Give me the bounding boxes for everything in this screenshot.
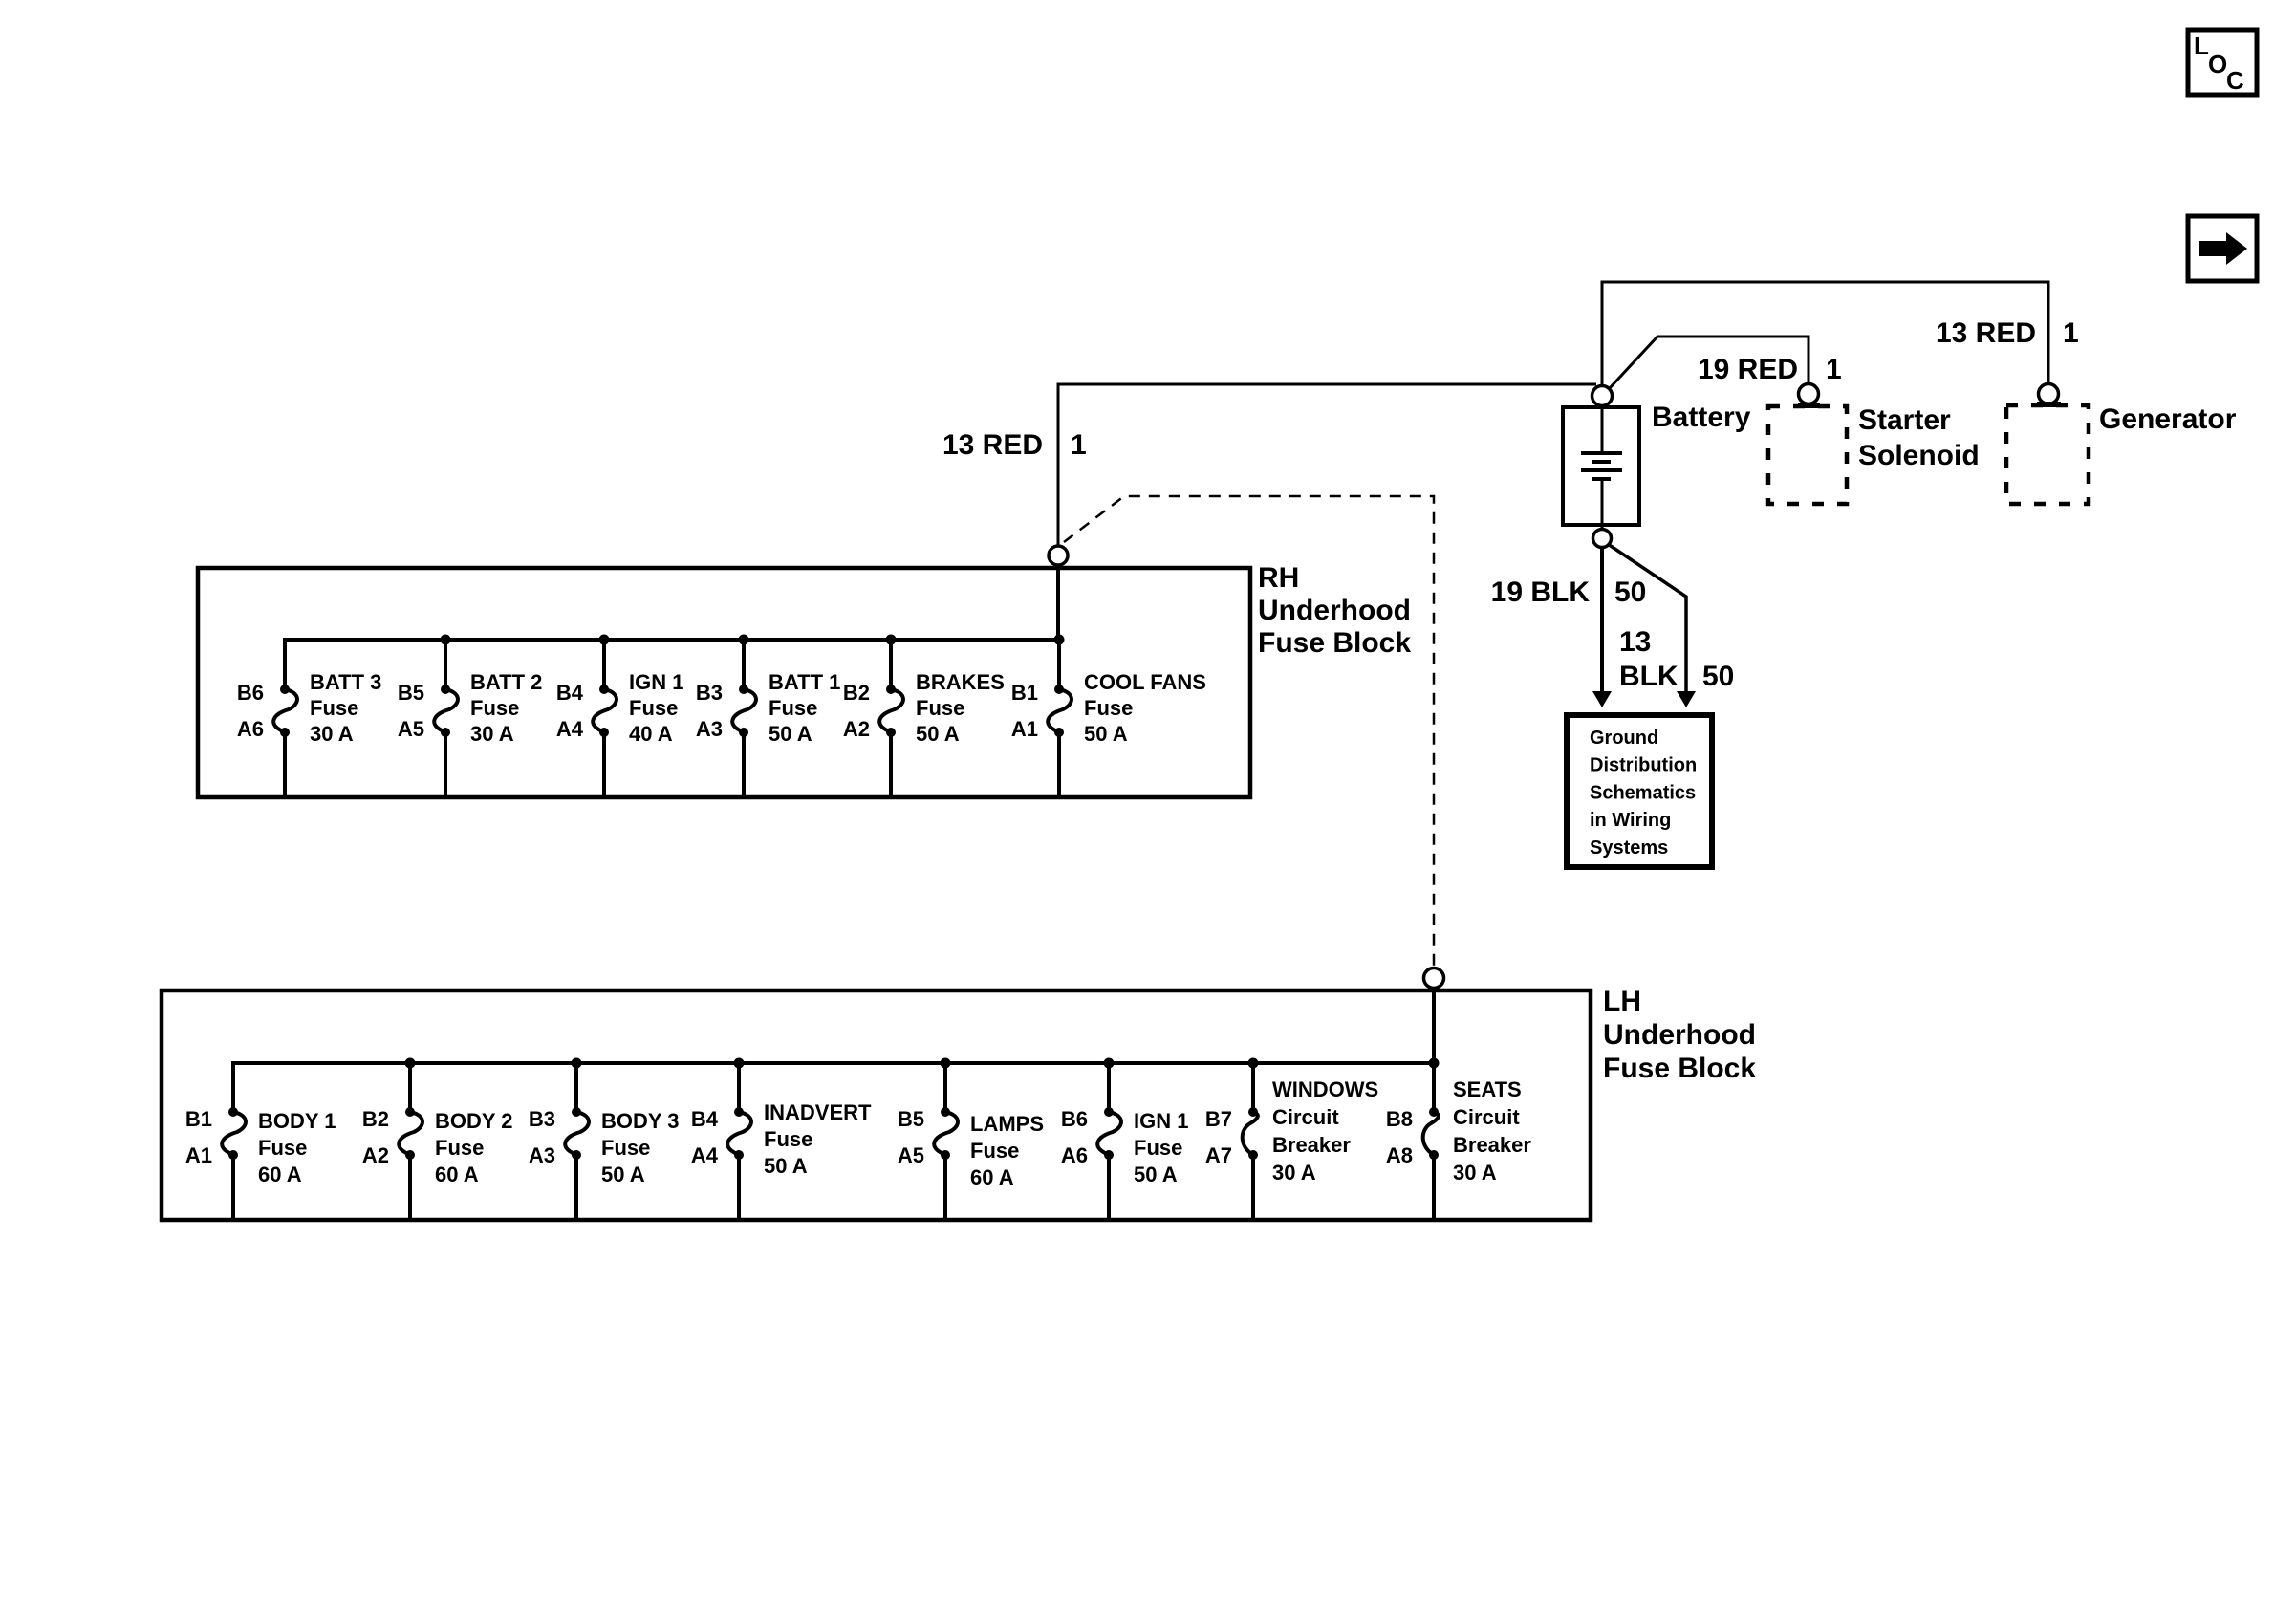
svg-text:30 A: 30 A bbox=[1272, 1161, 1316, 1185]
junction / wire for RH fuse IGN 1 bbox=[599, 635, 610, 798]
fuse BODY 2 60 A (LH B2/A2) bbox=[399, 1107, 422, 1160]
fuse INADVERT 50 A (LH B4/A4) bbox=[727, 1107, 751, 1160]
LOC reference box bbox=[2188, 30, 2257, 95]
svg-text:50: 50 bbox=[1614, 577, 1646, 608]
svg-text:Fuse: Fuse bbox=[764, 1127, 812, 1151]
junction / wire for LH circuit breaker WINDOWS bbox=[1248, 1058, 1259, 1221]
svg-text:50: 50 bbox=[1702, 661, 1734, 692]
svg-text:Breaker: Breaker bbox=[1453, 1133, 1531, 1157]
svg-text:A2: A2 bbox=[843, 717, 870, 741]
svg-text:B3: B3 bbox=[529, 1107, 555, 1131]
wire 19 BLK from battery negative to ground bbox=[1600, 547, 1604, 694]
svg-text:Fuse: Fuse bbox=[1084, 696, 1133, 720]
svg-text:Fuse: Fuse bbox=[916, 696, 964, 720]
svg-text:B8: B8 bbox=[1386, 1107, 1413, 1131]
RH block bus bar bbox=[285, 640, 1059, 689]
LH block bus bar bbox=[233, 1063, 1434, 1112]
svg-text:A8: A8 bbox=[1386, 1143, 1413, 1167]
svg-text:50 A: 50 A bbox=[916, 722, 960, 746]
svg-text:Fuse Block: Fuse Block bbox=[1258, 627, 1411, 659]
svg-text:Fuse: Fuse bbox=[310, 696, 358, 720]
svg-text:Fuse: Fuse bbox=[629, 696, 678, 720]
svg-text:50 A: 50 A bbox=[601, 1163, 645, 1186]
junction / wire for RH fuse COOL FANS bbox=[1054, 635, 1065, 798]
svg-text:1: 1 bbox=[1071, 429, 1087, 461]
svg-text:RH: RH bbox=[1258, 562, 1299, 594]
fuse LAMPS 60 A (LH B5/A5) bbox=[934, 1107, 958, 1160]
svg-text:BRAKES: BRAKES bbox=[916, 670, 1005, 694]
svg-text:13 RED: 13 RED bbox=[1936, 317, 2036, 349]
svg-text:30 A: 30 A bbox=[470, 722, 514, 746]
svg-text:BATT 2: BATT 2 bbox=[470, 670, 542, 694]
svg-text:Circuit: Circuit bbox=[1453, 1105, 1520, 1129]
svg-text:A5: A5 bbox=[898, 1143, 924, 1167]
svg-text:Fuse: Fuse bbox=[1134, 1136, 1182, 1160]
wire 13 RED from battery to generator bbox=[1602, 282, 2048, 386]
svg-text:B1: B1 bbox=[185, 1107, 212, 1131]
svg-text:B6: B6 bbox=[1061, 1107, 1088, 1131]
LH underhood fuse block outline bbox=[162, 990, 1591, 1220]
svg-text:BODY 2: BODY 2 bbox=[435, 1109, 513, 1133]
svg-text:Ground: Ground bbox=[1590, 728, 1658, 749]
svg-text:13: 13 bbox=[1619, 626, 1651, 658]
battery B+ terminal node bbox=[1592, 386, 1613, 406]
generator terminal node bbox=[2039, 384, 2059, 404]
ground arrow (19 BLK) bbox=[1592, 691, 1612, 707]
svg-text:Underhood: Underhood bbox=[1603, 1019, 1756, 1051]
svg-text:LH: LH bbox=[1603, 986, 1641, 1017]
ground arrow (13 BLK) bbox=[1677, 691, 1696, 707]
wire RH block feed (into bus) bbox=[1056, 564, 1060, 640]
circuit breaker WINDOWS 30 A (LH B7/A7) bbox=[1243, 1107, 1258, 1160]
fuse BODY 1 60 A (LH B1/A1) bbox=[222, 1107, 246, 1160]
junction / wire for LH fuse LAMPS bbox=[941, 1058, 951, 1221]
RH fuse block input node bbox=[1049, 546, 1068, 565]
svg-text:B5: B5 bbox=[398, 681, 424, 705]
svg-text:LAMPS: LAMPS bbox=[970, 1112, 1044, 1136]
svg-text:BODY 3: BODY 3 bbox=[601, 1109, 680, 1133]
svg-text:Fuse: Fuse bbox=[970, 1139, 1019, 1163]
fuse BRAKES 50 A (RH B2/A2) bbox=[879, 685, 903, 737]
svg-text:50 A: 50 A bbox=[1084, 722, 1128, 746]
svg-text:A6: A6 bbox=[1061, 1143, 1088, 1167]
svg-text:30 A: 30 A bbox=[310, 722, 354, 746]
svg-text:A2: A2 bbox=[362, 1143, 389, 1167]
dashed wire from 13 RED node to LH underhood fuse block bbox=[1064, 496, 1434, 968]
junction / wire for LH circuit breaker SEATS bbox=[1429, 1058, 1440, 1221]
svg-text:50 A: 50 A bbox=[769, 722, 812, 746]
fuse BODY 3 50 A (LH B3/A3) bbox=[565, 1107, 589, 1160]
junction / wire for RH fuse BRAKES bbox=[886, 635, 897, 798]
svg-text:13 RED: 13 RED bbox=[942, 429, 1043, 461]
svg-text:Schematics: Schematics bbox=[1590, 782, 1696, 803]
junction / wire for RH fuse BATT 2 bbox=[441, 635, 451, 798]
fuse COOL FANS 50 A (RH B1/A1) bbox=[1048, 685, 1072, 737]
generator (dashed outline) bbox=[2006, 405, 2089, 504]
ground distribution reference box bbox=[1567, 715, 1712, 867]
svg-text:1: 1 bbox=[1826, 354, 1842, 385]
svg-text:B7: B7 bbox=[1205, 1107, 1232, 1131]
svg-text:SEATS: SEATS bbox=[1453, 1077, 1522, 1101]
svg-text:Systems: Systems bbox=[1590, 838, 1668, 859]
svg-text:A4: A4 bbox=[556, 717, 584, 741]
svg-text:60 A: 60 A bbox=[435, 1163, 479, 1186]
svg-text:B1: B1 bbox=[1011, 681, 1038, 705]
svg-text:O: O bbox=[2208, 50, 2227, 78]
svg-text:19 BLK: 19 BLK bbox=[1491, 577, 1591, 608]
svg-text:C: C bbox=[2226, 66, 2244, 95]
svg-text:A6: A6 bbox=[237, 717, 264, 741]
svg-text:A3: A3 bbox=[529, 1143, 555, 1167]
starter solenoid (dashed outline) bbox=[1768, 406, 1847, 504]
circuit breaker SEATS 30 A (LH B8/A8) bbox=[1423, 1107, 1439, 1160]
svg-text:30 A: 30 A bbox=[1453, 1161, 1497, 1185]
svg-text:A7: A7 bbox=[1205, 1143, 1232, 1167]
svg-text:Breaker: Breaker bbox=[1272, 1133, 1351, 1157]
svg-text:A5: A5 bbox=[398, 717, 424, 741]
junction / wire for LH fuse BODY 1 bbox=[231, 1063, 235, 1220]
svg-text:B2: B2 bbox=[362, 1107, 389, 1131]
junction / wire for LH fuse INADVERT bbox=[734, 1058, 745, 1221]
fuse IGN 1 50 A (LH B6/A6) bbox=[1097, 1107, 1121, 1160]
svg-text:INADVERT: INADVERT bbox=[764, 1100, 872, 1124]
LH fuse block input node bbox=[1424, 968, 1444, 989]
wire 13 RED from battery to RH underhood fuse block bbox=[1058, 384, 1596, 546]
junction / wire for RH fuse BATT 1 bbox=[739, 635, 749, 798]
generator connector bar bbox=[2037, 402, 2061, 407]
junction / wire for LH fuse BODY 2 bbox=[405, 1058, 416, 1221]
svg-text:50 A: 50 A bbox=[1134, 1163, 1178, 1186]
svg-text:COOL FANS: COOL FANS bbox=[1084, 670, 1206, 694]
battery B- terminal node bbox=[1593, 530, 1612, 548]
svg-text:IGN 1: IGN 1 bbox=[629, 670, 683, 694]
svg-text:60 A: 60 A bbox=[970, 1165, 1014, 1189]
svg-text:40 A: 40 A bbox=[629, 722, 673, 746]
svg-text:50 A: 50 A bbox=[764, 1154, 808, 1178]
svg-text:Distribution: Distribution bbox=[1590, 755, 1697, 776]
starter solenoid terminal node bbox=[1799, 384, 1819, 404]
svg-text:BATT 1: BATT 1 bbox=[769, 670, 840, 694]
svg-text:Fuse: Fuse bbox=[435, 1136, 484, 1160]
wire 19 RED from battery to starter solenoid bbox=[1609, 337, 1809, 389]
svg-text:1: 1 bbox=[2063, 317, 2079, 349]
svg-text:B4: B4 bbox=[556, 681, 584, 705]
junction / wire for RH fuse BATT 3 bbox=[283, 640, 287, 797]
svg-text:Underhood: Underhood bbox=[1258, 595, 1411, 626]
svg-text:B6: B6 bbox=[237, 681, 264, 705]
battery BAT1 bbox=[1563, 405, 1639, 529]
junction / wire for LH fuse IGN 1 bbox=[1104, 1058, 1115, 1221]
svg-text:A3: A3 bbox=[696, 717, 723, 741]
svg-text:Circuit: Circuit bbox=[1272, 1105, 1339, 1129]
svg-text:B2: B2 bbox=[843, 681, 870, 705]
svg-text:BLK: BLK bbox=[1619, 661, 1679, 692]
wire LH block feed (into bus) bbox=[1432, 987, 1436, 1063]
svg-text:A4: A4 bbox=[691, 1143, 719, 1167]
svg-text:19 RED: 19 RED bbox=[1698, 354, 1798, 385]
svg-text:Battery: Battery bbox=[1652, 402, 1751, 433]
starter solenoid connector bar bbox=[1798, 402, 1820, 408]
svg-text:Fuse: Fuse bbox=[258, 1136, 307, 1160]
fuse IGN 1 40 A (RH B4/A4) bbox=[593, 685, 617, 737]
svg-text:B5: B5 bbox=[898, 1107, 924, 1131]
wire 13 BLK from battery negative to ground bbox=[1608, 544, 1686, 694]
svg-text:L: L bbox=[2194, 32, 2209, 60]
svg-text:WINDOWS: WINDOWS bbox=[1272, 1077, 1378, 1101]
svg-text:B3: B3 bbox=[696, 681, 723, 705]
svg-text:IGN 1: IGN 1 bbox=[1134, 1109, 1188, 1133]
svg-text:BATT 3: BATT 3 bbox=[310, 670, 381, 694]
junction / wire for LH fuse BODY 3 bbox=[572, 1058, 582, 1221]
fuse BATT 2 30 A (RH B5/A5) bbox=[434, 685, 458, 737]
svg-text:in Wiring: in Wiring bbox=[1590, 810, 1671, 831]
svg-text:60 A: 60 A bbox=[258, 1163, 302, 1186]
fuse BATT 1 50 A (RH B3/A3) bbox=[732, 685, 756, 737]
svg-text:Solenoid: Solenoid bbox=[1858, 440, 1980, 471]
svg-text:B4: B4 bbox=[691, 1107, 719, 1131]
svg-text:BODY 1: BODY 1 bbox=[258, 1109, 336, 1133]
svg-text:Fuse: Fuse bbox=[470, 696, 519, 720]
svg-text:Generator: Generator bbox=[2099, 403, 2237, 435]
svg-text:Starter: Starter bbox=[1858, 404, 1951, 436]
RH underhood fuse block outline bbox=[198, 568, 1250, 797]
fuse BATT 3 30 A (RH B6/A6) bbox=[273, 685, 297, 737]
svg-text:A1: A1 bbox=[1011, 717, 1038, 741]
svg-text:Fuse Block: Fuse Block bbox=[1603, 1053, 1756, 1084]
svg-text:Fuse: Fuse bbox=[769, 696, 817, 720]
arrow reference box bbox=[2188, 216, 2257, 281]
svg-text:A1: A1 bbox=[185, 1143, 212, 1167]
svg-text:Fuse: Fuse bbox=[601, 1136, 650, 1160]
